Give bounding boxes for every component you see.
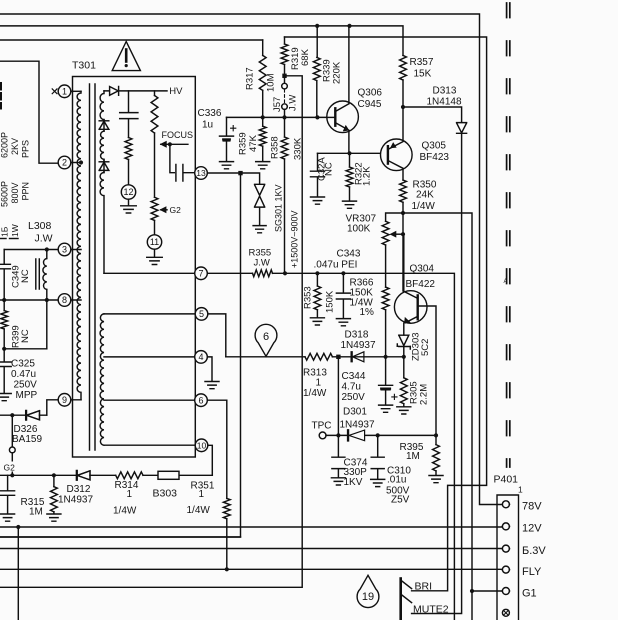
capacitor C374 <box>332 435 345 477</box>
diode secondary D-a <box>99 120 109 132</box>
svg-text:24K: 24K <box>416 189 434 200</box>
svg-text:1u: 1u <box>202 120 213 131</box>
diode D301 <box>347 430 350 441</box>
svg-text:19: 19 <box>362 591 374 603</box>
connector pin 78V <box>502 501 509 508</box>
wire pin5 to flag6 line <box>208 314 226 357</box>
svg-text:NC: NC <box>20 329 31 343</box>
pin 8 <box>58 294 71 307</box>
emitter arrow Q306 <box>344 126 349 131</box>
pin 10 <box>195 439 208 452</box>
svg-text:1: 1 <box>127 489 133 500</box>
resistor R315 <box>53 475 55 486</box>
svg-text:1N4937: 1N4937 <box>340 420 375 431</box>
svg-text:2: 2 <box>62 158 67 168</box>
svg-text:D313: D313 <box>433 85 457 96</box>
svg-text:G2: G2 <box>170 205 182 215</box>
wire third bus (left) to R317 <box>0 39 263 41</box>
resistor R351 <box>223 498 230 518</box>
svg-text:C325: C325 <box>11 358 35 369</box>
transformer secondary upper winding <box>100 91 104 273</box>
svg-text:FOCUS: FOCUS <box>162 130 194 140</box>
jumper J57 <box>284 76 286 84</box>
svg-text:1: 1 <box>199 489 205 500</box>
node junction G1 <box>470 589 474 593</box>
resistor R366 <box>382 287 389 310</box>
emitter arrow Q305 <box>391 143 396 148</box>
pin 4 <box>195 351 208 364</box>
ground under circle 12 <box>121 206 137 213</box>
wire D313 to MUTE2 <box>412 133 462 613</box>
svg-text:68K: 68K <box>300 48 311 66</box>
wire pin10 tap <box>104 444 195 446</box>
svg-text:2KV: 2KV <box>10 138 20 155</box>
svg-text:7: 7 <box>198 269 203 279</box>
svg-text:3: 3 <box>62 245 67 255</box>
diode D326 <box>26 411 40 421</box>
connector pin G1 <box>502 588 509 595</box>
wire Q305 base node line <box>318 152 388 154</box>
svg-text:1N4148: 1N4148 <box>427 96 462 107</box>
resistor R350 <box>400 180 407 202</box>
fuse B303 <box>158 471 179 479</box>
wire 6.3V bus <box>0 548 502 550</box>
svg-text:47K: 47K <box>248 134 259 152</box>
svg-text:J.W: J.W <box>288 95 299 111</box>
svg-text:Б.3V: Б.3V <box>522 545 546 557</box>
wire R319 top bus to BRI flag <box>285 37 487 591</box>
svg-text:J57: J57 <box>272 97 283 112</box>
svg-text:+1500V~900V: +1500V~900V <box>290 210 300 268</box>
diode secondary D-b <box>99 159 109 172</box>
svg-text:D312: D312 <box>67 484 91 495</box>
transformer core <box>90 84 96 450</box>
pin 5 <box>195 308 208 321</box>
wire D318 junction down to TPC line <box>337 357 339 436</box>
wire pin1 to primary <box>71 90 81 92</box>
svg-text:A: A <box>504 279 508 285</box>
node junction R350 bottom <box>401 211 405 215</box>
pin 13 <box>195 167 208 180</box>
ground under circle 11 <box>147 257 163 264</box>
svg-text:J.W: J.W <box>254 258 270 269</box>
svg-text:R357: R357 <box>410 57 434 68</box>
node junctions TPC line <box>336 433 340 437</box>
wire second top bus to R357 <box>0 26 403 56</box>
diode HV rectifier <box>104 87 167 96</box>
wire vertical off-page from 12V bus <box>17 527 19 620</box>
pin 6 <box>195 394 208 407</box>
svg-text:G1: G1 <box>522 587 537 599</box>
ground under R315 <box>47 514 61 521</box>
wire pin10 to B303 line <box>208 445 213 475</box>
svg-text:1: 1 <box>62 87 67 97</box>
capacitor C310 <box>371 435 384 478</box>
resistor R314 <box>116 472 143 479</box>
ground under C344 <box>379 405 393 412</box>
svg-text:G2: G2 <box>4 462 16 472</box>
ground under R359 <box>256 162 270 169</box>
pin 7 <box>195 267 208 280</box>
svg-text:150K: 150K <box>325 290 336 313</box>
ground under R305 <box>397 407 411 414</box>
svg-text:330K: 330K <box>293 137 304 160</box>
terminal G2 output <box>11 415 13 447</box>
left component box edge <box>0 61 58 163</box>
wire pin8 line <box>0 299 81 301</box>
svg-text:78V: 78V <box>522 501 542 513</box>
terminal circle 11 <box>147 235 161 249</box>
flag BRI <box>399 579 402 620</box>
resistor R357 <box>400 55 407 80</box>
wiper arrow VR307 <box>401 232 405 236</box>
resistor R358 <box>284 117 286 137</box>
svg-text:5C2: 5C2 <box>420 339 431 356</box>
diode D312 <box>76 471 90 481</box>
wire 12V bus <box>0 526 502 528</box>
resistor R353 <box>316 273 318 286</box>
wire pin13 line <box>207 173 259 184</box>
svg-text:HV: HV <box>169 86 183 97</box>
zener diode ZD303 <box>397 335 410 357</box>
potentiometer VR307 <box>386 213 403 221</box>
capacitor C336 <box>220 117 234 140</box>
svg-text:NC: NC <box>20 269 31 283</box>
ground under C32A <box>311 197 325 204</box>
svg-text:P401: P401 <box>494 473 519 485</box>
svg-text:1M: 1M <box>406 451 420 462</box>
svg-text:11: 11 <box>150 237 159 247</box>
resistor R322 <box>349 153 351 167</box>
svg-text:1N4937: 1N4937 <box>58 495 93 506</box>
svg-text:6: 6 <box>198 395 203 405</box>
svg-text:1: 1 <box>518 485 523 495</box>
wire G2 line <box>0 474 76 476</box>
resistor R319 <box>284 37 286 44</box>
wire pin3 corner down <box>3 250 5 264</box>
svg-text:6: 6 <box>263 331 269 343</box>
node x mark at pin 1 <box>52 89 57 94</box>
svg-text:R317: R317 <box>245 67 256 90</box>
plus mark C336 <box>231 126 236 131</box>
wire G1 to connector <box>472 590 502 592</box>
wire pin3 line <box>4 249 81 251</box>
svg-text:R353: R353 <box>303 286 314 309</box>
node junction R319 bottom <box>282 74 286 78</box>
plus mark C344 <box>392 394 397 399</box>
wire R350 junction to G1 column <box>403 213 472 620</box>
flag MUTE2 <box>402 595 412 603</box>
focus tap arrow and wire <box>161 143 188 145</box>
connector pin shield <box>502 609 509 616</box>
wire pin6 to R351 <box>207 400 227 498</box>
wire pin7 line to lower right <box>104 273 454 620</box>
svg-text:J.W: J.W <box>35 232 53 244</box>
node junction dots on second bus <box>315 24 319 28</box>
transformer lower secondary winding <box>100 314 104 445</box>
svg-text:D318: D318 <box>345 329 369 340</box>
transistor Q305 <box>381 139 413 171</box>
svg-text:NC: NC <box>324 162 335 176</box>
pin 2 <box>58 156 71 169</box>
svg-text:2.2M: 2.2M <box>419 384 430 405</box>
svg-text:1KV: 1KV <box>344 477 363 488</box>
wire R319 junction right and long vertical to bottom bus <box>0 76 302 588</box>
svg-text:12: 12 <box>123 187 133 197</box>
svg-text:1%: 1% <box>360 307 375 318</box>
svg-text:C336: C336 <box>198 108 222 119</box>
svg-text:5: 5 <box>199 309 204 319</box>
svg-text:4.7u: 4.7u <box>342 381 361 392</box>
connector pin FLY <box>502 566 509 573</box>
connector pin Б.3V <box>502 545 509 552</box>
node junction at pin13 line <box>238 171 242 175</box>
svg-text:R359: R359 <box>238 132 249 155</box>
resistor focus divider upper <box>154 91 156 96</box>
svg-text:1M: 1M <box>29 506 43 517</box>
ground under C336 <box>220 162 234 169</box>
capacitor C343 <box>336 273 350 318</box>
capacitor bottom-left <box>1 475 15 513</box>
svg-text:1/4W: 1/4W <box>187 505 211 516</box>
svg-text:220K: 220K <box>332 61 343 84</box>
svg-text:1.2K: 1.2K <box>362 166 373 186</box>
emitter arrow Q304 <box>405 318 410 323</box>
node junctions on pin7 line <box>283 271 287 275</box>
svg-text:0.47u: 0.47u <box>11 369 36 380</box>
terminal circle 12 <box>121 185 135 199</box>
svg-text:C343: C343 <box>337 249 361 260</box>
connector pin 12V <box>502 523 509 530</box>
svg-text:8: 8 <box>62 295 67 305</box>
svg-text:PPS: PPS <box>21 140 31 158</box>
svg-text:6200P: 6200P <box>0 132 10 158</box>
node junction R357-Q305-D313 <box>401 105 405 109</box>
transistor Q306 <box>327 101 359 133</box>
wire top bus to 78V <box>0 14 502 505</box>
resistor HV bleed lower <box>125 138 132 160</box>
connector P401 body <box>497 495 519 620</box>
svg-text:FLY: FLY <box>522 566 542 578</box>
wire TPC line <box>326 434 436 436</box>
resistor R313 <box>305 353 332 360</box>
inductor L308 <box>46 250 48 259</box>
svg-text:9: 9 <box>62 395 67 405</box>
resistor R399 <box>3 300 5 311</box>
svg-text:C344: C344 <box>342 371 366 382</box>
shield dashed line <box>506 3 508 467</box>
page flag 19 <box>357 575 379 607</box>
node junction D318 left <box>336 355 340 359</box>
resistor focus divider lower (G2) <box>151 197 158 220</box>
node junctions flag6 line right <box>384 355 388 359</box>
svg-text:R358: R358 <box>270 136 281 159</box>
svg-text:800V: 800V <box>10 182 20 203</box>
wire long vertical from pin13 junction to bottom bus <box>0 173 241 537</box>
ground under C343 <box>336 319 350 326</box>
capacitor HV filter <box>120 91 138 138</box>
svg-text:BF423: BF423 <box>420 152 450 163</box>
svg-text:10: 10 <box>197 441 207 451</box>
svg-text:100K: 100K <box>347 223 371 234</box>
resistor R359 <box>262 117 264 126</box>
capacitor C344 <box>379 357 393 390</box>
ground under C310 <box>371 479 385 486</box>
wire R399 junction line <box>4 348 47 350</box>
capacitor C32A <box>311 153 325 196</box>
wire D326 line <box>0 414 47 416</box>
core bars L308 <box>36 259 40 289</box>
svg-text:BF422: BF422 <box>406 279 436 290</box>
svg-text:MPP: MPP <box>16 390 38 401</box>
wire FLY bus <box>0 568 502 570</box>
svg-text:250V: 250V <box>14 379 38 390</box>
pin 9 <box>58 394 71 407</box>
svg-text:BRI: BRI <box>415 580 433 592</box>
svg-text:B303: B303 <box>153 487 178 499</box>
svg-text:12V: 12V <box>522 523 542 535</box>
ground under SG301 <box>253 226 266 233</box>
wire pin9 line <box>47 400 81 415</box>
wire pin5 tap <box>104 313 195 315</box>
svg-text:PPN: PPN <box>21 182 31 201</box>
svg-text:Q305: Q305 <box>422 141 447 152</box>
svg-text:250V: 250V <box>342 392 366 403</box>
wire pin6 tap <box>104 399 195 401</box>
ground under R322 <box>343 201 357 208</box>
pin 1 <box>58 85 71 98</box>
transformer primary winding <box>77 91 81 400</box>
svg-text:.01u: .01u <box>387 475 406 486</box>
svg-text:10M: 10M <box>266 73 277 92</box>
svg-text:1/4W: 1/4W <box>303 388 327 399</box>
wire pin4 to ground <box>207 357 212 381</box>
diode D313 <box>403 107 467 133</box>
wire pin2 to primary <box>71 162 81 164</box>
wire pin4 tap <box>104 356 195 358</box>
ground under capacitor bottom-left <box>1 514 15 521</box>
warning triangle symbol <box>112 42 140 71</box>
resistor R355 <box>253 270 273 277</box>
spark gap SG301 <box>255 184 265 225</box>
svg-text:1W: 1W <box>10 224 20 237</box>
ground under R395 <box>429 476 443 483</box>
svg-text:MUTE2: MUTE2 <box>413 603 449 615</box>
ground under C374 <box>331 478 345 485</box>
svg-text:TPC: TPC <box>312 420 332 431</box>
svg-text:1N4937: 1N4937 <box>341 340 376 351</box>
svg-text:4: 4 <box>198 352 203 362</box>
svg-text:13: 13 <box>196 168 206 178</box>
transformer T301 box <box>73 77 196 458</box>
wire second bottom bus <box>0 536 241 538</box>
pin 3 <box>58 243 71 256</box>
svg-text:C945: C945 <box>358 99 382 110</box>
resistor R305 <box>403 357 405 378</box>
ground under C325 <box>0 394 11 401</box>
resistor R339 <box>316 26 318 58</box>
svg-text:15K: 15K <box>414 68 432 79</box>
wire base node line y117 <box>227 116 336 118</box>
diode D318 <box>350 352 353 362</box>
transistor Q304 <box>394 291 427 324</box>
page flag 6 <box>255 324 277 356</box>
svg-text:1/4W: 1/4W <box>113 505 137 516</box>
text fragments at page edge <box>0 83 2 109</box>
capacitor C325 <box>0 349 11 393</box>
capacitor C349 <box>0 264 10 300</box>
svg-text:Z5V: Z5V <box>391 494 410 505</box>
svg-text:1/4W: 1/4W <box>412 201 436 212</box>
svg-text:1Б: 1Б <box>0 226 10 237</box>
resistor R395 <box>435 435 437 444</box>
G2 tap arrow <box>161 209 167 211</box>
svg-text:D301: D301 <box>343 406 367 417</box>
svg-text:BA159: BA159 <box>12 434 42 445</box>
svg-text:L308: L308 <box>28 220 52 232</box>
svg-text:T301: T301 <box>72 60 96 72</box>
svg-text:Q306: Q306 <box>358 87 383 98</box>
svg-text:5600P: 5600P <box>0 181 10 207</box>
ground pin4 <box>205 382 219 389</box>
ground under R353 <box>310 318 324 325</box>
svg-text:1: 1 <box>316 377 322 388</box>
svg-text:Q304: Q304 <box>410 263 435 274</box>
wire flag6 line <box>226 356 404 358</box>
svg-text:SG301 1KV: SG301 1KV <box>274 184 284 232</box>
capacitor focus coupling <box>170 144 195 181</box>
resistor R317 <box>262 40 264 55</box>
svg-text:.047u PEI: .047u PEI <box>314 259 358 270</box>
